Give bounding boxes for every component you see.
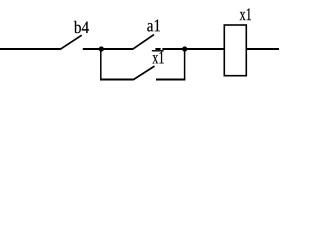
contact b4 (NO contact blade) [60, 35, 82, 49]
wire: left rail segment into contact b4 [0, 48, 60, 50]
label b4 [74, 21, 89, 33]
node junction dot 2 [182, 46, 187, 51]
wire: bottom rail right segment [156, 79, 185, 81]
label a1 [147, 20, 160, 32]
wire: output segment right of coil [247, 48, 279, 50]
wire: left vertical branch drop [100, 49, 102, 81]
label x1 with overline (bottom contact) [152, 52, 163, 64]
wire: segment from node 2 to coil x1 [185, 48, 224, 50]
wire: segment from b4 to node 1 [83, 48, 101, 50]
contact x1 (NO contact blade, holding contact) [133, 66, 155, 80]
wire: segment continuing to node 2 [162, 48, 184, 50]
wire: right vertical branch drop [184, 49, 186, 81]
label x1 (coil) [240, 8, 251, 20]
contact a1 (NO contact blade) [132, 35, 154, 50]
overline over bottom x1 label [152, 50, 164, 52]
node junction dot 1 [99, 46, 104, 51]
wire: bottom rail left segment [100, 79, 133, 81]
relay coil x1 (rectangle) [224, 25, 246, 76]
wire: segment from a1 to node 2 (small break over label) [155, 48, 160, 50]
wire: segment from node 1 to contact a1 [101, 48, 132, 50]
